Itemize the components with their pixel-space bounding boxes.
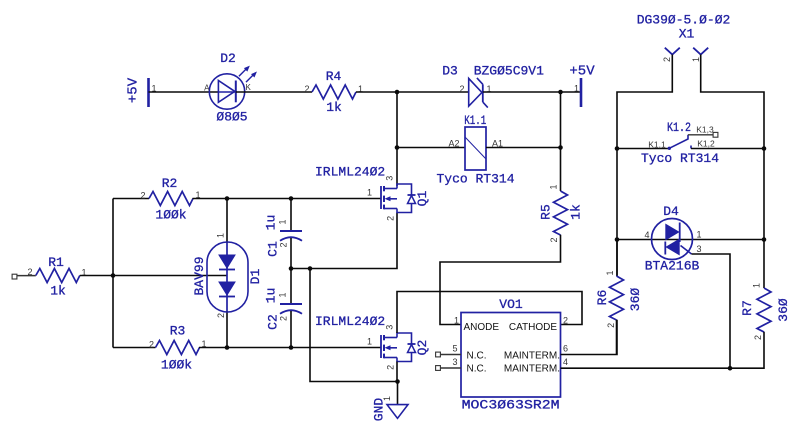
resistor R5 1k [554,191,568,235]
svg-text:N.C.: N.C. [467,364,487,375]
wire R2 left [113,198,149,200]
svg-text:1ØØk: 1ØØk [161,358,192,373]
svg-text:1k: 1k [326,100,342,115]
node junction +5V/R5 [558,90,563,95]
svg-text:MAINTERM.: MAINTERM. [504,351,560,362]
svg-text:1: 1 [278,219,288,224]
svg-text:ANODE: ANODE [464,322,500,333]
svg-text:R7: R7 [740,300,755,316]
node junction D1 top [225,196,230,201]
svg-text:BZGØ5C9V1: BZGØ5C9V1 [474,64,544,79]
svg-text:1: 1 [697,230,702,240]
wire R3 to Q2 gate [199,347,381,349]
svg-text:IRLML24Ø2: IRLML24Ø2 [315,165,385,180]
transistor Q2 IRLML2402 [380,335,382,358]
svg-text:BTA216B: BTA216B [645,259,700,274]
resistor R7 360 [757,288,771,332]
svg-text:D1: D1 [248,269,263,285]
svg-text:1: 1 [278,292,288,297]
svg-text:2: 2 [459,84,464,94]
wire Q2 drain to VO1 cathode [397,292,582,334]
svg-text:Q2: Q2 [415,340,430,356]
svg-text:1: 1 [574,83,579,93]
svg-text:IRLML24Ø2: IRLML24Ø2 [315,314,385,329]
svg-text:1: 1 [549,184,559,189]
svg-text:2: 2 [549,237,559,242]
wire D1 chain bottom [226,311,228,348]
svg-text:R1: R1 [48,255,64,270]
wire D4 gate to pin4 row [692,254,731,368]
svg-text:+5V: +5V [126,77,142,103]
svg-text:2: 2 [563,316,568,326]
svg-text:K1,2: K1,2 [697,139,715,149]
node junction C1 top [289,196,294,201]
wire +5V to D2 [149,91,219,93]
wire K1.1 A1 to R5 column [486,147,561,149]
svg-text:Tyco RT314: Tyco RT314 [436,172,514,187]
node junction A1/R5 [558,145,563,150]
svg-text:1k: 1k [50,284,66,299]
svg-text:1u: 1u [264,288,279,304]
svg-text:2: 2 [279,316,289,321]
svg-text:VO1: VO1 [499,297,523,312]
wire R1 to D1 center tap [80,275,227,277]
wire C2 top lead [290,269,292,305]
optocoupler VO1 MOC3063SR2M box [461,313,561,398]
capacitor C2 1u [280,303,302,305]
pin VO1 N.C. pin5 stub [436,352,441,357]
node junction D4 right [762,237,767,242]
pin VO1 N.C. pin3 stub [436,366,441,371]
node junction GND [395,379,400,384]
svg-text:A2: A2 [448,139,459,149]
svg-text:1: 1 [216,233,226,238]
svg-text:+5V: +5V [569,64,595,80]
svg-text:3: 3 [697,244,702,254]
resistor R6 360 [616,240,618,277]
node junction R1/R2/R3 column [111,273,116,278]
svg-text:R2: R2 [162,176,178,191]
svg-text:Tyco RT314: Tyco RT314 [641,151,719,166]
svg-text:Q1: Q1 [415,191,430,207]
svg-text:5: 5 [452,344,457,354]
pin X1-1 fork [693,48,708,55]
svg-text:1: 1 [691,57,701,62]
svg-text:1: 1 [605,270,615,275]
wire to K1.1 A2 [397,147,465,149]
svg-text:2: 2 [140,190,145,200]
pin X1-2 fork [665,48,680,55]
svg-text:4: 4 [644,230,649,240]
svg-text:2: 2 [386,216,396,221]
node junction C1 bottom [289,266,294,271]
led D2 [209,74,244,109]
wire Q1 source row [291,213,397,269]
svg-text:K1.2: K1.2 [667,120,691,135]
svg-text:D2: D2 [220,51,236,66]
wire branch to GND row [310,269,398,382]
svg-text:A: A [204,84,210,93]
wire K1.1 row down to R5 [560,148,562,192]
svg-text:R5: R5 [539,204,554,220]
wire R4 to D3 [356,91,469,93]
svg-text:K: K [246,83,252,92]
svg-text:N.C.: N.C. [467,351,487,362]
node junction D1 bottom [225,345,230,350]
wire X1-1 to right column [701,55,764,289]
svg-text:MAINTERM.: MAINTERM. [504,364,560,375]
wire C1 top lead [290,199,292,232]
svg-text:D3: D3 [442,64,458,79]
svg-text:X1: X1 [679,27,695,42]
wire vertical R4-junction to K1.1 row and Q1 drain [396,92,398,186]
svg-text:1: 1 [382,396,392,401]
relay coil K1.1 Tyco RT314 [465,127,486,170]
svg-text:6: 6 [563,344,568,354]
wire D2 to R4 [236,91,312,93]
node junction R4/Q1 [395,90,400,95]
svg-text:1ØØk: 1ØØk [155,208,186,223]
svg-text:1u: 1u [264,215,279,231]
triac D4 BTA216B [652,219,693,260]
wire vertical left column [112,199,114,348]
svg-text:3: 3 [385,325,395,330]
wire R3 left [113,347,156,349]
diode D1 BAV99 dual [207,242,248,312]
wire +5V junction down to K1.1 row [560,92,562,148]
svg-text:K1,3: K1,3 [696,125,714,135]
wire C2 bottom lead [290,311,292,348]
resistor R4 1k [312,85,356,99]
node junction K1.2 left [615,146,620,151]
svg-text:1: 1 [752,283,762,288]
svg-text:K1.1: K1.1 [464,113,486,128]
svg-text:2: 2 [304,84,309,94]
svg-text:1: 1 [454,316,459,326]
svg-text:3: 3 [385,176,395,181]
svg-text:36Ø: 36Ø [776,298,791,322]
svg-text:1: 1 [367,188,372,198]
svg-text:CATHODE: CATHODE [509,322,557,333]
power +5V right [580,78,583,107]
svg-text:2: 2 [279,242,289,247]
node junction C2 bottom [289,345,294,350]
svg-text:3: 3 [452,357,457,367]
resistor R1 1k [36,269,80,283]
wire VO1 pin6 to R6 [561,320,618,355]
wire R5 to VO1 anode pin1 [440,235,561,325]
svg-text:Ø8Ø5: Ø8Ø5 [216,110,247,125]
svg-text:2: 2 [27,267,32,277]
capacitor C1 1u [280,230,302,232]
svg-text:2: 2 [149,339,154,349]
wire Q2 source down [396,362,398,382]
svg-text:MOC3Ø63SR2M: MOC3Ø63SR2M [462,398,560,413]
resistor R2 100k [149,192,193,206]
power +5V left [147,78,150,107]
svg-text:4: 4 [563,357,568,367]
svg-text:BAV99: BAV99 [192,256,207,295]
svg-text:1: 1 [367,337,372,347]
svg-text:DG39Ø-5.Ø-Ø2: DG39Ø-5.Ø-Ø2 [637,13,731,28]
node junction branch down [308,266,313,271]
svg-text:36Ø: 36Ø [628,288,643,312]
wire R2 to Q1 gate [193,198,382,200]
pin stub R1 input [12,274,17,279]
node junction K1.1-A2 [395,145,400,150]
resistor R3 100k [156,341,200,355]
transistor Q1 IRLML2402 [380,186,382,209]
wire X1-2 to left column [617,55,672,277]
wire C1 bottom lead [290,238,292,269]
svg-text:1k: 1k [569,204,584,220]
wire D1 chain top [226,199,228,244]
svg-text:2: 2 [216,313,226,318]
diode D3 BZG05C9V1 [469,78,482,106]
node junction pin4/R7/gate [728,366,733,371]
svg-text:D4: D4 [663,204,679,219]
svg-text:K1,1: K1,1 [648,140,666,150]
svg-text:R3: R3 [170,324,186,339]
svg-text:2: 2 [386,365,396,370]
svg-text:R6: R6 [595,290,610,306]
ground GND [397,382,399,405]
relay contact K1.2 Tyco RT314 [617,148,669,150]
node junction K1.2 right [762,146,767,151]
wire D4 row [617,239,764,241]
wire D3 to +5V [483,91,581,93]
wire VO1 pin4 row [561,367,731,369]
svg-text:2: 2 [753,335,763,340]
svg-text:2: 2 [662,57,672,62]
svg-text:R4: R4 [326,69,342,84]
svg-text:2: 2 [606,323,616,328]
node junction D4 left [615,237,620,242]
